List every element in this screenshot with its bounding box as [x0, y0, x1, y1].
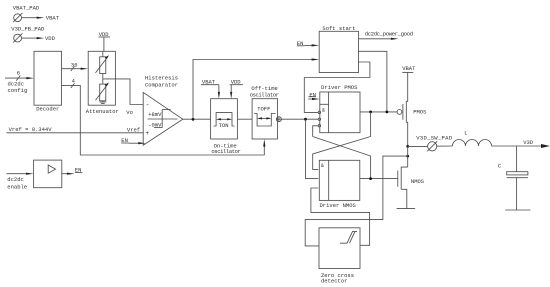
wire R1 to R2 [102, 74, 104, 85]
svg-text:Soft start: Soft start [322, 25, 355, 32]
svg-text:C: C [498, 163, 502, 170]
svg-text:TOFF: TOFF [257, 106, 270, 113]
block off-time oscillator U-TOFF [250, 85, 279, 139]
svg-text:Attenuator: Attenuator [86, 108, 119, 115]
block Driver NMOS [319, 160, 360, 209]
pad V3D_SW_PAD [416, 134, 452, 151]
svg-text:dc2dc_power_good: dc2dc_power_good [365, 31, 413, 38]
svg-text:config: config [8, 87, 28, 94]
wire Vref to comparator [7, 132, 144, 134]
svg-text:+: + [145, 130, 149, 137]
transistor PMOS Q1 [397, 73, 427, 147]
junction comparator output [192, 118, 195, 121]
node SW junction at pad [406, 145, 409, 148]
wire driver pmos input3 cross-couple stub [313, 126, 319, 137]
svg-text:VBAT: VBAT [402, 65, 416, 72]
block Decoder [34, 51, 62, 105]
svg-text:-: - [146, 102, 150, 109]
wire soft start to driver pmos input1 [304, 62, 370, 112]
svg-text:NMOS: NMOS [411, 178, 425, 185]
wire pmos out down to diagonal B [370, 112, 372, 137]
svg-text:&: & [321, 163, 324, 169]
power flag VDD (attenuator) [99, 31, 111, 51]
svg-text:Decoder: Decoder [36, 106, 59, 113]
svg-text:V3D: V3D [523, 139, 534, 146]
resistor R1 (variable) [96, 55, 110, 73]
bus 4 decoder to off-time oscillator [62, 78, 266, 155]
bus 36 decoder to attenuator [62, 61, 89, 71]
power flag VDD (on-time osc) [230, 78, 243, 98]
svg-text:Driver NMOS: Driver NMOS [320, 202, 357, 209]
svg-text:L: L [464, 130, 467, 137]
wire soft start to pmos gate line [359, 51, 387, 112]
block Zero cross detector [319, 228, 360, 285]
svg-text:Vref: Vref [127, 126, 140, 133]
svg-text:&: & [322, 107, 325, 113]
ground (attenuator) [99, 101, 106, 104]
inductor L [453, 130, 492, 146]
wire cross-couple diagonal A (nmos out to pmos in3) [313, 137, 371, 179]
capacitor C [498, 146, 528, 210]
block Soft start [319, 31, 358, 72]
svg-text:+8mV: +8mV [148, 111, 162, 118]
wire pad2 to VDD [22, 37, 38, 39]
node XOR output circle [276, 117, 281, 122]
svg-text:6: 6 [17, 69, 20, 76]
svg-text:Vref = 0.344V: Vref = 0.344V [9, 126, 53, 133]
svg-text:VBAT_PAD: VBAT_PAD [13, 5, 40, 12]
junction nmos gate line [369, 177, 372, 180]
pad V3D_FB_PAD [11, 25, 45, 42]
junction pmos gate line b [386, 111, 389, 114]
power flag VBAT (pmos) [402, 65, 416, 73]
node SW junction zcd tap [406, 155, 409, 158]
svg-text:4: 4 [72, 78, 76, 85]
ground (capacitor) [505, 209, 530, 211]
svg-text:V3D_SW_PAD: V3D_SW_PAD [416, 134, 452, 141]
wire junction to soft start [193, 60, 313, 120]
pad VBAT_PAD [13, 5, 40, 23]
svg-text:Driver PMOS: Driver PMOS [321, 84, 358, 91]
wire SW node vertical [407, 146, 409, 167]
wire pad1 to VBAT [22, 17, 38, 19]
resistor R2 (variable) [96, 82, 110, 100]
input dc2dc config [5, 69, 34, 94]
svg-text:oscillator: oscillator [211, 148, 240, 155]
svg-text:detector: detector [321, 278, 347, 285]
wire Vo tap to comparator [103, 79, 143, 105]
wire comparator output [183, 118, 211, 120]
transistor NMOS Q2 [398, 167, 425, 209]
svg-text:Vo: Vo [126, 109, 133, 116]
block on-time oscillator U-TON [211, 99, 241, 156]
output dc2dc_power_good [359, 31, 413, 40]
wire VDD to R1 [102, 51, 104, 57]
wire cross-couple diagonal B (pmos out to nmos in1) [313, 137, 371, 170]
wire buffer output EN [62, 167, 83, 175]
svg-text:enable: enable [7, 183, 27, 190]
wire zcd input from SW node [305, 156, 408, 246]
svg-text:TON: TON [219, 122, 229, 129]
wire driver nmos output to NMOS gate [360, 178, 398, 180]
svg-text:36: 36 [71, 61, 78, 68]
wire driver pmos output to PMOS gate [360, 111, 397, 113]
svg-text:VBAT: VBAT [46, 15, 60, 22]
svg-text:PMOS: PMOS [413, 109, 427, 116]
output arrow V3D [541, 144, 550, 148]
junction pmos gate line a [369, 111, 372, 114]
pin circles driver pmos inputs [318, 111, 320, 113]
op-amp hysteresis comparator [143, 75, 183, 146]
block EN buffer [34, 160, 62, 188]
wire sw node to pad [408, 145, 428, 147]
junction before driver [304, 118, 307, 121]
wire inductor to output [492, 145, 542, 147]
EN label (driver pmos) [308, 91, 319, 100]
svg-text:dc2dc: dc2dc [7, 176, 24, 183]
svg-text:V3D_FB_PAD: V3D_FB_PAD [11, 25, 45, 32]
ground (nmos) [397, 208, 416, 210]
EN label (comparator) [121, 137, 146, 144]
EN label (soft start) [297, 40, 319, 47]
input dc2dc enable [6, 173, 33, 191]
power flag VBAT (on-time osc) [201, 78, 220, 98]
block Attenuator [88, 51, 115, 105]
wire zcd output to driver nmos input3 [311, 188, 370, 245]
svg-text:EN: EN [309, 91, 316, 98]
svg-text:oscillator: oscillator [250, 92, 279, 99]
svg-text:VDD: VDD [45, 35, 56, 42]
svg-text:Comparator: Comparator [145, 81, 178, 88]
block Driver PMOS [320, 84, 360, 133]
junction and wire xor-branch down to driver nmos [306, 119, 319, 178]
wire TON to TOFF [237, 118, 252, 120]
wire pad to inductor [437, 145, 453, 147]
wire xor to driver input [281, 118, 318, 120]
